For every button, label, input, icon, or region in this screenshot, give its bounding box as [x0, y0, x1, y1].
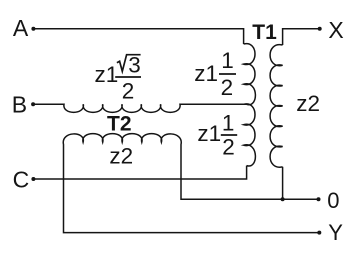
value label z1*1/2 for T1 primary lower half — [197, 110, 237, 159]
fraction bar — [221, 134, 237, 136]
svg-text:1: 1 — [221, 48, 234, 73]
terminal dot X — [318, 27, 322, 31]
terminal dot Y — [317, 231, 321, 235]
svg-text:T1: T1 — [252, 21, 277, 44]
svg-text:A: A — [13, 15, 29, 41]
terminal dot 0 — [317, 197, 321, 201]
svg-text:0: 0 — [327, 188, 339, 213]
svg-text:3: 3 — [128, 53, 141, 78]
svg-text:z1: z1 — [194, 61, 218, 86]
transformer T1 primary upper half winding (value z1*1/2) — [244, 44, 256, 105]
wire: terminal A lead to T1 primary top — [35, 29, 244, 44]
transformer T1 primary lower half winding (value z1*1/2) — [244, 104, 256, 166]
fraction bar of sqrt(3)/2 — [115, 76, 141, 78]
svg-text:C: C — [13, 167, 30, 193]
svg-text:X: X — [328, 17, 343, 43]
value label z1*1/2 for T1 primary upper half — [194, 48, 236, 100]
terminal dot B — [31, 102, 35, 106]
svg-text:Y: Y — [328, 220, 343, 245]
svg-text:z2: z2 — [109, 143, 133, 168]
wire: terminal B lead + transformer T2 primary winding (value z1*sqrt(3)/2) + center-tap wire to T1 — [35, 104, 247, 112]
svg-text:2: 2 — [122, 79, 135, 104]
wire: terminal X lead to T1 secondary top — [283, 29, 320, 45]
fraction bar — [219, 73, 236, 75]
terminal dot C — [31, 177, 35, 181]
value label z1*sqrt(3)/2 for T2 primary — [95, 53, 142, 104]
svg-text:1: 1 — [222, 110, 235, 135]
transformer T1 secondary winding (value z2, vertical) — [270, 45, 283, 168]
wire: terminal Y lead + left riser + transformer T2 secondary winding (value z2) + right riser + wire to terminal 0 — [63, 134, 319, 233]
svg-text:B: B — [12, 92, 27, 118]
svg-text:z1: z1 — [197, 121, 221, 146]
svg-text:2: 2 — [221, 75, 234, 100]
radical sign of sqrt(3) — [117, 55, 141, 72]
junction dot: T1 secondary bottom on 0 wire — [281, 197, 285, 201]
svg-text:z1: z1 — [95, 62, 119, 87]
wire: T1 primary bottom riser + C lead — [35, 166, 247, 179]
svg-text:z2: z2 — [296, 91, 320, 116]
svg-text:T2: T2 — [107, 113, 132, 136]
terminal dot A — [31, 27, 35, 31]
svg-text:2: 2 — [222, 134, 235, 159]
wire: T1 secondary bottom to junction on 0 wire — [282, 167, 284, 200]
